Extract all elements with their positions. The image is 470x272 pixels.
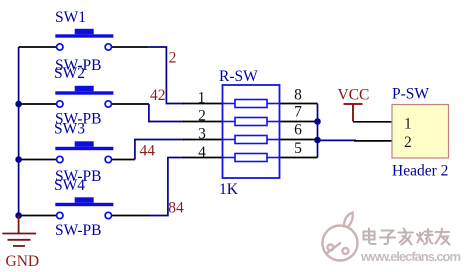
wire: header pin2 stub black xyxy=(354,140,392,142)
svg-text:1: 1 xyxy=(198,89,206,106)
node junction dot GND on left bus xyxy=(15,212,22,219)
svg-text:84: 84 xyxy=(168,199,184,216)
resistor R3 xyxy=(223,139,236,141)
svg-text:6: 6 xyxy=(294,122,302,139)
watermark text zi (子) drawn xyxy=(380,231,395,245)
svg-text:VCC: VCC xyxy=(338,87,370,104)
switch SW3 xyxy=(55,141,113,162)
resistor R4 xyxy=(223,157,236,159)
svg-text:P-SW: P-SW xyxy=(392,86,429,103)
wire: pin2 stub black xyxy=(183,121,223,123)
svg-text:2: 2 xyxy=(404,134,412,151)
svg-text:Header 2: Header 2 xyxy=(392,163,448,180)
wire: net 84 navy SW4 to row4 xyxy=(149,158,184,216)
svg-text:2: 2 xyxy=(198,108,206,125)
switch SW1 xyxy=(55,29,113,50)
wire: net 44 navy SW3 to row3 xyxy=(135,140,184,160)
wire: SW1 right black xyxy=(108,46,148,48)
svg-text:2: 2 xyxy=(169,50,177,67)
wire: pin1 stub black xyxy=(183,103,223,105)
connector P-SW (Header 2) xyxy=(392,105,449,159)
wire: SW2 left stub xyxy=(19,103,60,105)
svg-text:44: 44 xyxy=(140,143,156,160)
svg-text:5: 5 xyxy=(294,140,302,157)
wire: SW4 right black xyxy=(108,215,149,217)
watermark logo elecfans xyxy=(323,213,358,261)
wire: header pin1 stub black from VCC xyxy=(353,121,392,123)
svg-text:1K: 1K xyxy=(219,181,239,198)
watermark text shao (烧) drawn xyxy=(417,229,433,244)
wire: SW3 left stub xyxy=(19,159,60,161)
svg-text:42: 42 xyxy=(150,87,166,104)
wire: SW2 right black xyxy=(108,103,149,105)
wire: SW3 right black xyxy=(108,159,135,161)
svg-text:7: 7 xyxy=(294,104,302,121)
wire: pin5 stub black xyxy=(280,157,318,159)
node junction dot SW3 on left bus xyxy=(15,156,22,163)
svg-text:SW3: SW3 xyxy=(54,121,85,138)
wire: net 2 navy SW1 to row1 xyxy=(149,47,184,104)
wire: SW1 left stub xyxy=(19,46,60,48)
svg-text:R-SW: R-SW xyxy=(219,68,258,85)
svg-text:SW2: SW2 xyxy=(54,65,85,82)
svg-text:SW1: SW1 xyxy=(55,9,86,26)
watermark text fa (发) drawn xyxy=(399,229,414,245)
node junction dot SW2 on left bus xyxy=(15,101,22,108)
svg-text:3: 3 xyxy=(198,125,206,142)
wire: exit to header pin2 navy xyxy=(318,139,357,141)
watermark text you (友) drawn xyxy=(436,229,450,245)
wire: left bus vertical xyxy=(18,47,20,216)
wire: right vertical bus navy xyxy=(317,104,319,158)
svg-text:www.elecfans.com: www.elecfans.com xyxy=(360,249,461,264)
wire: SW4 left stub xyxy=(19,215,60,217)
watermark text dian (电) drawn xyxy=(364,229,376,245)
resistor R1 xyxy=(223,103,236,105)
svg-text:8: 8 xyxy=(294,87,302,104)
wire: pin3 stub black xyxy=(183,139,223,141)
wire: pin8 stub black xyxy=(280,103,318,105)
power VCC symbol xyxy=(344,104,363,122)
ground symbol xyxy=(2,216,36,247)
wire: pin7 stub black xyxy=(280,121,318,123)
wire: pin6 stub black xyxy=(280,139,318,141)
svg-text:SW4: SW4 xyxy=(54,177,85,194)
wire: pin4 stub black xyxy=(183,157,223,159)
resistor network R-SW box xyxy=(223,85,280,178)
svg-text:SW-PB: SW-PB xyxy=(55,222,102,239)
switch SW2 xyxy=(55,86,113,107)
node junction dot pin6 xyxy=(314,137,321,144)
wire: net 42 navy SW2 to row2 xyxy=(149,104,184,122)
node junction dot pin7 xyxy=(314,118,321,125)
resistor R2 xyxy=(223,121,236,123)
svg-text:GND: GND xyxy=(6,253,40,270)
switch SW4 xyxy=(55,197,113,218)
svg-text:1: 1 xyxy=(404,116,412,133)
svg-text:4: 4 xyxy=(198,144,206,161)
